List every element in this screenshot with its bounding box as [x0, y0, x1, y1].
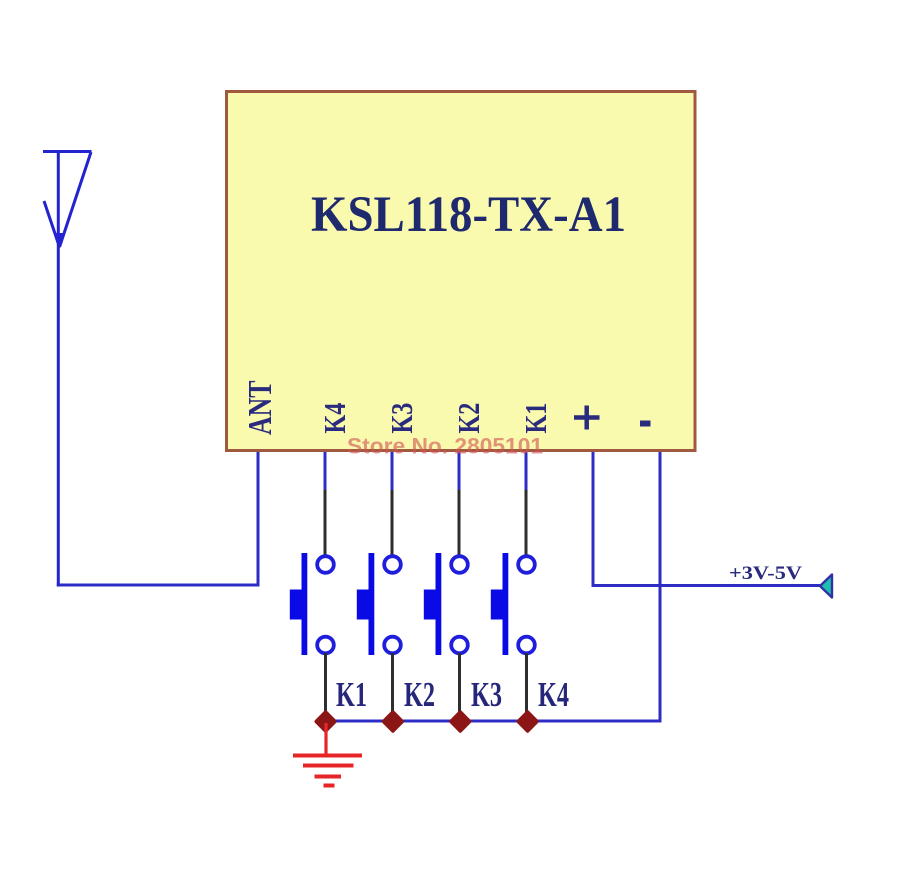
- wire ANT pin stub down from module: [257, 452, 260, 585]
- svg-text:K3: K3: [385, 403, 420, 434]
- svg-text:ANT: ANT: [241, 380, 279, 435]
- svg-text:K2: K2: [452, 403, 487, 434]
- wire switch S4 lower lead (dark): [525, 653, 528, 721]
- pushbutton switch S3 (K3): [424, 553, 468, 655]
- watermark Store No. 2805101: [347, 434, 543, 459]
- wire switch S3 upper lead (dark): [458, 490, 461, 557]
- pin label ANT: [241, 380, 279, 435]
- pin label - (negative supply pin): [640, 421, 651, 427]
- wire ground bus (horizontal): [326, 720, 661, 723]
- switch label K4: [538, 675, 569, 714]
- pin label + (positive supply pin): [574, 406, 600, 430]
- net label +3V-5V: [729, 563, 802, 584]
- wire switch S2 lower lead (dark): [391, 653, 394, 721]
- svg-text:K2: K2: [404, 675, 435, 714]
- antenna symbol: [43, 152, 92, 251]
- pin label K3: [385, 403, 420, 434]
- svg-text:K1: K1: [336, 675, 367, 714]
- pin label K1: [519, 403, 554, 434]
- wire switch S2 upper lead (dark): [391, 490, 394, 557]
- svg-text:KSL118-TX-A1: KSL118-TX-A1: [311, 187, 626, 243]
- junction dot at K2 switch: [384, 712, 403, 731]
- wire switch S4 upper lead (dark): [525, 490, 528, 557]
- svg-text:K4: K4: [538, 675, 569, 714]
- svg-text:+3V-5V: +3V-5V: [729, 563, 802, 584]
- wire - pin stub down to ground bus: [659, 452, 662, 723]
- switch label K3: [471, 675, 502, 714]
- wire + supply horizontal run: [592, 584, 822, 587]
- wire antenna feed vertical line: [57, 151, 60, 587]
- wire ANT horizontal run to antenna: [57, 584, 260, 587]
- pushbutton switch S2 (K2): [357, 553, 401, 655]
- module U1 body (KSL118-TX-A1 transmitter module): [227, 92, 696, 451]
- wire K2 pin stub (blue): [458, 452, 461, 491]
- svg-text:K3: K3: [471, 675, 502, 714]
- wire switch S3 lower lead (dark): [458, 653, 461, 721]
- wire K4 pin stub (blue): [324, 452, 327, 491]
- svg-text:K1: K1: [519, 403, 554, 434]
- svg-text:Store No. 2805101: Store No. 2805101: [347, 434, 543, 459]
- svg-text:K4: K4: [318, 403, 353, 434]
- junction dot at K1 switch / ground: [316, 712, 335, 731]
- wire switch S1 upper lead (dark): [324, 490, 327, 557]
- pushbutton switch S1 (K1): [290, 553, 334, 655]
- wire switch S1 lower lead (dark): [324, 653, 327, 721]
- supply terminal arrow (+3V-5V input): [820, 575, 832, 598]
- switch label K2: [404, 675, 435, 714]
- module U1 title label KSL118-TX-A1: [311, 187, 626, 243]
- pushbutton switch S4 (K4): [491, 553, 535, 655]
- wire K1 pin stub (blue): [525, 452, 528, 491]
- wire K3 pin stub (blue): [391, 452, 394, 491]
- switch label K1: [336, 675, 367, 714]
- junction dot at K3 switch: [451, 712, 470, 731]
- wire + pin stub down from module: [592, 452, 595, 587]
- pin label K4: [318, 403, 353, 434]
- pin label K2: [452, 403, 487, 434]
- junction dot at K4 switch: [518, 712, 537, 731]
- ground symbol: [293, 723, 362, 786]
